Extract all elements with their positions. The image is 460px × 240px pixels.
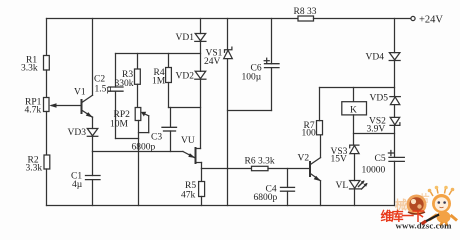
wire R4 top (168, 54, 170, 68)
wire R6 to V2 base (268, 168, 310, 170)
wire VS1 node to C6 bottom (228, 110, 272, 112)
wire left chain top (46, 19, 48, 56)
resistor R8 (298, 16, 314, 21)
wire RP2 wiper (143, 113, 149, 116)
svg-text:330k: 330k (115, 79, 134, 89)
C6 plus sign (264, 60, 269, 62)
svg-text:V1: V1 (74, 88, 86, 98)
wire VD1 chain from top rail (200, 19, 202, 34)
svg-text:www.dzsc.com: www.dzsc.com (396, 221, 453, 231)
diode VD4 (389, 53, 400, 60)
svg-text:VL: VL (336, 181, 349, 191)
wire VL to rail (354, 189, 356, 206)
svg-text:R5: R5 (185, 181, 196, 191)
svg-text:6800p: 6800p (254, 193, 278, 203)
LED VL (350, 181, 360, 189)
wire VS1 chain from top rail (227, 19, 229, 50)
watermark mascot (422, 186, 458, 226)
potentiometer RP2 (135, 108, 141, 121)
diode VD3 (87, 129, 98, 136)
transistor V1 (81, 100, 83, 113)
wire R4 bottom (168, 83, 170, 108)
wire base wire y168.3 to R6 (202, 168, 252, 170)
resistor R2 (44, 155, 50, 169)
capacitor C1 (92, 152, 94, 176)
svg-text:24V: 24V (204, 57, 221, 67)
relay K (342, 102, 367, 115)
C5 plus sign (388, 152, 393, 154)
svg-text:C2: C2 (94, 75, 105, 85)
wire VD2 down to VU base2 (200, 79, 202, 148)
svg-text:VD1: VD1 (176, 33, 195, 43)
diode VD2 (195, 71, 206, 78)
capacitor C6 (271, 19, 273, 64)
svg-text:VD2: VD2 (176, 72, 195, 82)
svg-text:1M: 1M (152, 77, 166, 87)
resistor R6 (252, 166, 269, 170)
svg-text:C5: C5 (375, 154, 386, 164)
wire V2 emitter to rail (320, 181, 322, 206)
svg-text:C3: C3 (151, 133, 162, 143)
wire VD3 to node (92, 136, 94, 151)
capacitor C5 (389, 156, 404, 158)
wire V1 emitter down (92, 117, 94, 129)
wire R2 to bottom rail (46, 169, 48, 206)
wire R3 top (137, 54, 139, 70)
watermark badge (407, 195, 427, 215)
resistor R1 (44, 56, 50, 71)
wire node R4-C3 to VD2 chain (169, 107, 201, 109)
transistor V2 (309, 162, 311, 176)
wire V2 collector to R7 (320, 135, 322, 158)
svg-text:100µ: 100µ (242, 73, 262, 83)
wire R7 top to y87.5 bus (319, 88, 321, 121)
wire RP1 wiper to V1 base (52, 105, 82, 107)
diode VD5 (390, 96, 400, 98)
wire relay bus y87.5 (320, 87, 395, 89)
svg-text:4.7k: 4.7k (25, 106, 42, 116)
svg-text:K: K (350, 106, 357, 116)
capacitor C4 (287, 169, 289, 188)
resistor R4 (166, 68, 172, 83)
zener VS3 (350, 145, 359, 148)
wire RP2 bottom to ground rail (138, 121, 140, 206)
wire top rail right segment (314, 18, 411, 20)
resistor R3 (135, 69, 141, 84)
svg-text:V2: V2 (298, 154, 310, 164)
svg-text:VD4: VD4 (366, 53, 385, 63)
svg-text:10M: 10M (110, 120, 129, 130)
wire K chain top (353, 88, 355, 102)
node +24V terminal (411, 16, 415, 20)
capacitor C2 (115, 54, 117, 88)
diode VD1 (195, 34, 206, 41)
wire VD4 chain from rail (394, 19, 396, 53)
svg-text:+24V: +24V (419, 15, 443, 26)
resistor R7 (317, 121, 323, 135)
potentiometer RP1 (44, 98, 50, 112)
svg-text:3.9V: 3.9V (367, 125, 386, 135)
wire top rail left segment (47, 18, 299, 20)
wire C2 bottom to RP2 bottom (116, 138, 139, 140)
zener VS1 (225, 47, 232, 52)
resistor R5 (201, 169, 203, 182)
svg-text:VD5: VD5 (370, 94, 389, 104)
wire R1 to RP1 (46, 70, 48, 98)
capacitor C3 (170, 108, 172, 128)
transistor VU unijunction (195, 148, 197, 163)
wire bottom rail (47, 205, 395, 207)
wire emitter bus y151.5 (93, 151, 184, 153)
wire node y133.5 (354, 133, 395, 135)
wire K to node y133.5 (353, 115, 355, 145)
svg-text:R6 3.3k: R6 3.3k (245, 157, 275, 167)
wire V1 collector to top rail (92, 19, 94, 96)
svg-text:3.3k: 3.3k (26, 164, 43, 174)
svg-text:10000: 10000 (362, 166, 386, 176)
svg-text:R8 33: R8 33 (294, 7, 317, 17)
wire R3 to RP2 (137, 84, 139, 107)
svg-text:VD3: VD3 (68, 128, 87, 138)
svg-text:RP2: RP2 (114, 110, 131, 120)
svg-text:47k: 47k (181, 191, 196, 201)
svg-text:100: 100 (302, 129, 317, 139)
wire sub rail y53 (116, 53, 201, 55)
wire VD1 to VD2 (200, 41, 202, 71)
svg-text:4µ: 4µ (72, 180, 83, 190)
zener VS2 (390, 117, 400, 124)
svg-text:6800p: 6800p (132, 143, 156, 153)
svg-text:1.5µ: 1.5µ (95, 85, 113, 95)
svg-text:3.3k: 3.3k (21, 64, 38, 74)
svg-text:15V: 15V (331, 155, 348, 165)
wire RP1 to R2 (46, 112, 48, 156)
svg-text:VU: VU (181, 136, 195, 146)
